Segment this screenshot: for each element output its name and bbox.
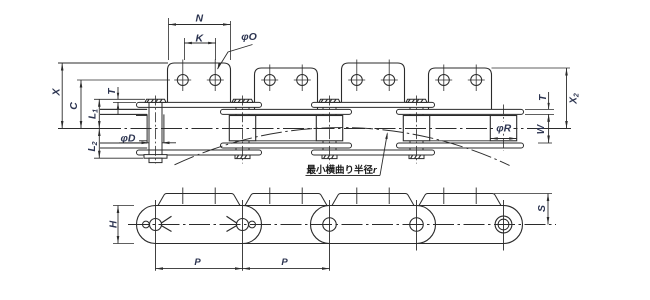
wire - chain centerline extension left <box>58 128 102 130</box>
attachment bent tab 1 (side view) <box>158 194 240 206</box>
pin link plate near edge band 2 <box>312 102 435 107</box>
plate end arc at pin 4 <box>417 206 436 244</box>
washer on pin 3 (far side) <box>322 155 337 159</box>
roller link gap lines (partial left link) <box>136 115 147 117</box>
cotter pin at pin 1 <box>143 221 150 228</box>
dimension C (hole centre height) <box>77 79 170 81</box>
svg-text:P: P <box>281 257 288 268</box>
hole O4.2 in attachment tab <box>471 75 482 86</box>
dimension W (inner width between plates) <box>538 142 552 144</box>
pin 5 vertical centre line (side view) <box>503 200 505 251</box>
pin rod 3 (top view) <box>323 102 336 155</box>
attachment bent tab 4 (side view) <box>419 194 501 206</box>
dimension P pitch 2 <box>243 268 330 270</box>
minimum lateral bending radius curve <box>175 128 510 166</box>
tab hole centre marks 2 <box>269 188 271 205</box>
svg-text:N: N <box>196 12 204 24</box>
pin 2 vertical centre line (side view) <box>242 200 244 271</box>
svg-text:T: T <box>107 88 118 95</box>
hole O3.2 in attachment tab <box>384 75 395 86</box>
pin 3 centerline <box>329 96 331 164</box>
roller link plate far edge band 2 <box>397 143 524 148</box>
pin 2 centerline <box>242 96 244 164</box>
pin 1 head circle <box>150 219 162 231</box>
plate end arc at pin 3 <box>311 206 330 244</box>
wire - centerline extension right for X2 <box>548 128 571 130</box>
pin 4 centerline <box>416 96 418 164</box>
A-attachment tab plate U3 (outline) <box>342 63 405 102</box>
washer on pin 1 (far side) <box>144 155 167 159</box>
roller link inner gap lines (link 4-5) <box>430 115 491 117</box>
pin 1 vertical centre line (side view) <box>155 200 157 271</box>
tab hole centre marks 3 <box>356 188 358 205</box>
roller link inner gap lines (link 2-3) <box>256 115 317 117</box>
roller link plate far edge (partial left link) <box>100 143 147 148</box>
pin rod 1 (top view, connecting pin) <box>148 102 150 155</box>
hole O2.1 in attachment tab <box>264 75 275 86</box>
roller R at pin 3 (top view) <box>316 116 342 141</box>
pin 5 centerline <box>503 105 505 152</box>
dimension K (hole spacing) <box>183 38 185 60</box>
washer on pin 1 (near side, hatched) <box>145 99 166 102</box>
svg-text:C: C <box>68 102 80 110</box>
dimension P pitch 1 <box>156 268 243 270</box>
roller R at pin 2 (top view) <box>229 116 255 141</box>
hole O1.1 in attachment tab <box>177 75 188 86</box>
dimension X (attachment height, pin link) <box>61 63 63 129</box>
left plate end arc (pin 1) <box>137 206 156 244</box>
washer on pin 3 (near side, hatched) <box>319 99 340 102</box>
svg-text:T: T <box>538 94 549 101</box>
dimension H (plate height) <box>113 205 134 207</box>
attachment bent tab 2 (side view) <box>245 194 327 206</box>
dimension L1 (centerline to near plate face) <box>98 99 100 128</box>
roller link plate near edge band 1 <box>221 109 352 114</box>
washer on pin 2 (near side, hatched) <box>232 99 253 102</box>
A-attachment tab plate U4 (outline) <box>429 68 492 109</box>
hole O2.2 in attachment tab <box>297 75 308 86</box>
tab hole centre marks 4 <box>443 188 445 205</box>
wire - X extension line at attachment top <box>58 62 168 64</box>
pin 3 vertical centre line (side view) <box>329 200 331 271</box>
A-attachment tab plate U2 (outline) <box>255 68 318 109</box>
pin 1 centerline <box>155 96 157 164</box>
roller link plate near edge band 2 <box>397 109 524 114</box>
bush circle pin 3 <box>323 218 337 232</box>
tab hole centre marks 1 <box>182 188 184 205</box>
dimension N (attachment width) <box>168 18 170 60</box>
plate end arc at pin 2 <box>243 206 262 244</box>
washer on pin 4 (far side) <box>409 155 424 159</box>
dimension L2 (centerline to far washer face) <box>94 157 143 159</box>
dimension T (plate thickness, right) <box>525 108 554 110</box>
A-attachment tab plate U1 (outline) <box>168 63 231 102</box>
dimension phi-R (roller diameter) <box>496 122 514 133</box>
roller link plate near edge (partial left link) <box>100 109 147 114</box>
roller and bush circles pin 5 <box>495 216 512 233</box>
pin 4 vertical centre line (side view) <box>416 200 418 251</box>
dimension X2 (attachment height, roller link) <box>492 67 571 69</box>
right plate end arc (pin 5) <box>504 206 523 244</box>
svg-text:H: H <box>108 220 119 228</box>
svg-text:S: S <box>536 205 548 212</box>
side view chain outline - plate edges <box>156 205 504 207</box>
svg-text:W: W <box>536 123 547 134</box>
roller link plate far edge band 1 <box>221 143 352 148</box>
dimension T (plate thickness, left) <box>94 98 145 100</box>
hole O1.2 in attachment tab <box>210 75 221 86</box>
roller R at pin 4 (top view) <box>403 116 429 141</box>
node - chain centerline (elevation) <box>100 128 552 130</box>
svg-text:φO: φO <box>241 31 257 43</box>
washer on pin 2 (far side) <box>235 155 250 159</box>
bush circle pin 4 <box>410 218 424 232</box>
cotter pin at pin 2 <box>249 221 256 228</box>
pin 2 head circle <box>237 219 249 231</box>
label minimum lateral bending radius r with leader <box>305 164 381 175</box>
hole O3.1 in attachment tab <box>351 75 362 86</box>
chain centerline over rollers (elevation) <box>100 128 552 130</box>
pin link plate far edge band 1 <box>137 150 262 155</box>
washer on pin 4 (near side, hatched) <box>406 99 427 102</box>
pin rod 2 (top view) <box>236 102 249 155</box>
pin link plate far edge band 2 <box>312 150 435 155</box>
svg-text:最小横曲り半径r: 最小横曲り半径r <box>307 164 379 176</box>
roller R at pin 5 (top view) <box>490 116 516 141</box>
svg-text:φR: φR <box>496 122 511 134</box>
plan centerline (side view) <box>128 224 556 226</box>
dimension phi-D (pin diameter) <box>118 132 139 142</box>
bush B1 at pin 1 (top view) <box>146 114 148 143</box>
pin rod 4 (top view) <box>410 102 423 155</box>
attachment bent tab 3 (side view) <box>332 194 414 206</box>
hole O4.1 in attachment tab <box>438 75 449 86</box>
svg-text:P: P <box>194 257 201 268</box>
pin link plate near edge band 1 <box>137 102 262 107</box>
svg-text:X: X <box>50 88 62 97</box>
dimension S (centerline to tab top) <box>494 193 552 195</box>
